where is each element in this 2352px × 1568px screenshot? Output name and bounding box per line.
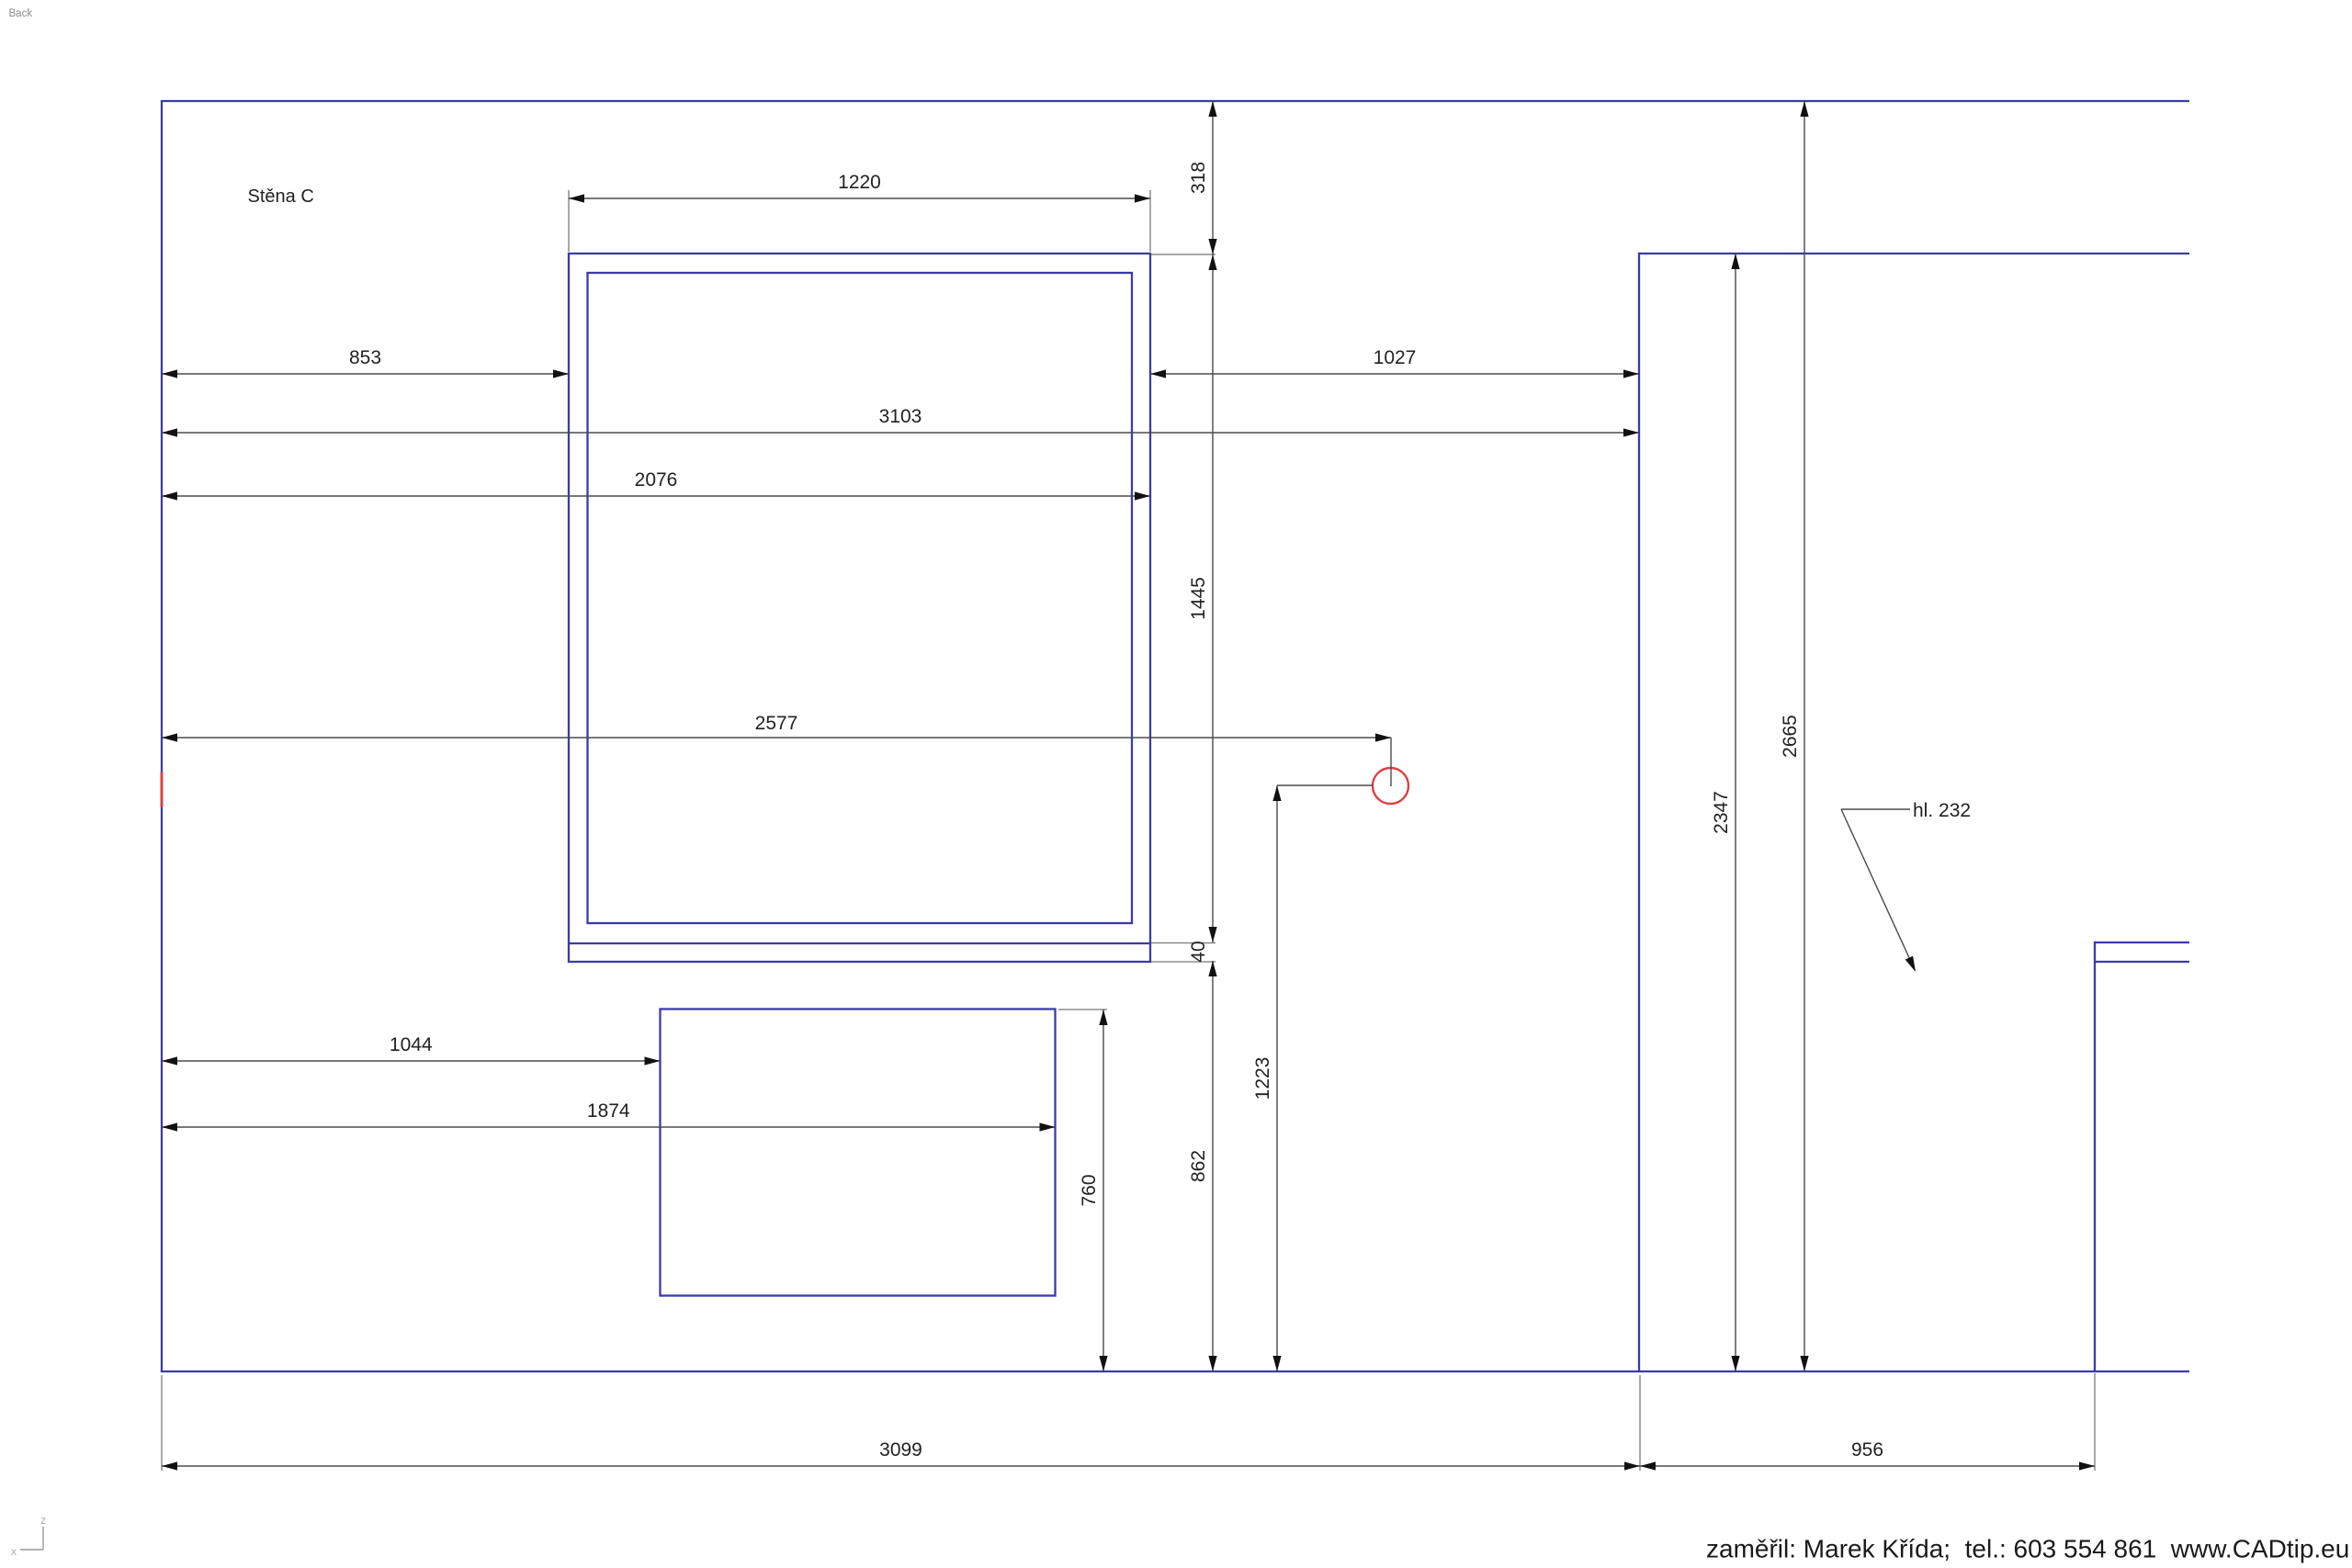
- window outer frame: [569, 254, 1150, 962]
- wall left edge: [161, 101, 163, 1371]
- window sill divider: [569, 942, 1150, 944]
- dimension 2076 (horizontal): [162, 469, 1150, 501]
- view axis indicator (Z/X): [11, 1517, 46, 1557]
- svg-text:1220: 1220: [838, 172, 881, 193]
- svg-text:1445: 1445: [1188, 577, 1209, 620]
- right niche sill line: [2095, 961, 2189, 963]
- window inner frame: [588, 273, 1133, 923]
- svg-text:2577: 2577: [755, 713, 798, 734]
- dimension 1027 (horizontal): [1150, 347, 1639, 378]
- wall top edge: [161, 100, 2189, 102]
- wall name label Stena C: [248, 186, 314, 207]
- svg-text:760: 760: [1079, 1174, 1100, 1206]
- svg-text:1044: 1044: [390, 1034, 433, 1055]
- svg-text:2076: 2076: [635, 469, 678, 491]
- svg-text:3103: 3103: [879, 406, 922, 427]
- extension line opening top to 760: [1058, 1009, 1107, 1010]
- svg-text:1223: 1223: [1252, 1057, 1273, 1100]
- dimension 40 (vertical, squeezed): [1188, 941, 1209, 962]
- dimension 853 (horizontal): [162, 347, 569, 378]
- back button label: [9, 8, 33, 19]
- svg-text:3099: 3099: [879, 1439, 922, 1461]
- svg-text:2347: 2347: [1711, 791, 1732, 834]
- dimension 1223 (vertical, to socket): [1252, 785, 1373, 1371]
- dimension 760 (vertical): [1079, 1010, 1108, 1371]
- dimension 1044 (horizontal): [162, 1034, 661, 1066]
- svg-text:X: X: [11, 1548, 17, 1557]
- dimension 2347 (vertical): [1711, 254, 1740, 1371]
- dimension 1874 (horizontal): [162, 1100, 1056, 1132]
- dimension 3103 (horizontal): [162, 406, 1639, 437]
- dimension 956 (horizontal): [1640, 1439, 2095, 1471]
- extension line niche for 956: [2094, 1373, 2096, 1471]
- wall bottom (floor line): [161, 1371, 2189, 1372]
- dimension 2665 (vertical): [1780, 101, 1809, 1371]
- extension line window bottom to 40/862: [1151, 961, 1216, 963]
- extension line window top-left: [568, 190, 570, 252]
- extension line window divider to 40: [1151, 942, 1216, 944]
- credit line: [1706, 1535, 2349, 1563]
- svg-text:2665: 2665: [1780, 715, 1801, 758]
- lower opening rectangle: [661, 1010, 1056, 1296]
- svg-text:hl. 232: hl. 232: [1913, 800, 1971, 821]
- dimension 1220 (horizontal): [569, 172, 1150, 203]
- dimension 3099 (horizontal): [162, 1439, 1640, 1471]
- right niche top line: [2095, 942, 2189, 943]
- dimension 862 (vertical): [1188, 961, 1217, 1371]
- svg-text:862: 862: [1188, 1150, 1209, 1182]
- niche depth leader and label hl. 232: [1841, 800, 1971, 972]
- svg-text:zaměřil: Marek Křída; tel.: 6: zaměřil: Marek Křída; tel.: 603 554 861 …: [1706, 1535, 2349, 1563]
- svg-text:Z: Z: [40, 1517, 46, 1526]
- socket height mark on left wall: [161, 773, 164, 807]
- right niche vertical edge: [2094, 942, 2096, 1371]
- dimension 2577 (to socket, with drop line): [162, 713, 1391, 786]
- svg-text:Back: Back: [9, 8, 33, 19]
- dimension 318 (vertical): [1188, 101, 1217, 254]
- extension line window top-right: [1149, 190, 1151, 252]
- right wall pillar edge: [1638, 253, 1640, 1371]
- svg-text:853: 853: [349, 347, 381, 368]
- dimension 1445 (vertical): [1188, 254, 1217, 942]
- svg-text:1874: 1874: [587, 1100, 630, 1122]
- extension line pillar for 3099/956: [1639, 1375, 1641, 1471]
- svg-text:956: 956: [1851, 1439, 1883, 1461]
- svg-text:Stěna C: Stěna C: [248, 186, 314, 207]
- extension line window corner to 318/1445: [1151, 254, 1216, 255]
- svg-text:40: 40: [1188, 941, 1209, 962]
- svg-text:318: 318: [1188, 162, 1209, 194]
- svg-text:1027: 1027: [1374, 347, 1417, 368]
- right wall top ledge: [1639, 253, 2189, 254]
- socket position circle: [1373, 768, 1408, 804]
- extension line bottom-left for 3099: [161, 1375, 163, 1471]
